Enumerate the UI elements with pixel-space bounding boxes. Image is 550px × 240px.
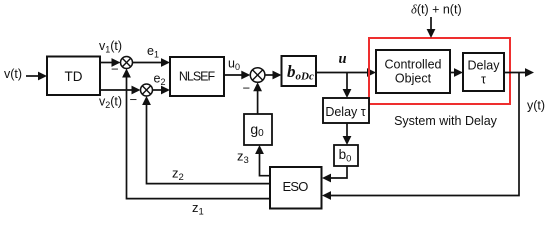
block ESO — [270, 167, 322, 209]
svg-text:e2: e2 — [154, 72, 166, 88]
wire u bODc to Controlled Object with branch — [316, 68, 376, 98]
block Controlled Object — [376, 50, 450, 93]
block g0 — [244, 114, 272, 145]
svg-text:−: − — [130, 92, 138, 107]
block Delay tau inside red box — [463, 53, 504, 91]
wire z1 ESO left to junction A — [122, 69, 270, 199]
block bODc — [282, 56, 317, 86]
wire TD top output v1 to junction A — [100, 58, 121, 67]
svg-text:u0: u0 — [228, 57, 240, 73]
svg-text:e1: e1 — [147, 44, 159, 60]
svg-text:TD: TD — [65, 69, 83, 84]
block NLSEF — [170, 57, 224, 96]
block Delay tau lower — [323, 98, 369, 123]
svg-text:Delay τ: Delay τ — [325, 105, 365, 119]
wire junction C to bODc — [265, 71, 282, 80]
svg-text:v(t): v(t) — [4, 67, 22, 81]
svg-text:z3: z3 — [237, 149, 249, 167]
svg-text:Delay: Delay — [468, 59, 501, 73]
wire disturbance arrow into red box — [427, 17, 436, 38]
wire b0 down and left into ESO — [322, 166, 347, 182]
wire g0 up to junction C — [253, 82, 262, 114]
wire v(t) input arrow — [26, 72, 47, 81]
summing junction A — [121, 57, 133, 69]
wire e2 junction B to NLSEF — [153, 86, 171, 95]
svg-text:z2: z2 — [172, 166, 184, 184]
summing junction B — [141, 84, 153, 96]
svg-text:v2(t): v2(t) — [99, 95, 122, 111]
svg-text:−: − — [111, 62, 119, 77]
wire output of Delay with arrow and branch down — [322, 68, 534, 200]
svg-text:u: u — [339, 51, 347, 67]
wire z3 ESO left to g0 bottom — [255, 145, 270, 176]
svg-text:ESO: ESO — [282, 179, 308, 194]
red box System with Delay — [369, 38, 510, 104]
svg-text:NLSEF: NLSEF — [179, 70, 216, 84]
wire z2 ESO left to junction B — [142, 96, 270, 184]
svg-text:y(t): y(t) — [527, 99, 545, 113]
wire e1 junction A to NLSEF — [133, 58, 171, 67]
svg-text:Object: Object — [395, 72, 432, 86]
svg-text:v1(t): v1(t) — [99, 39, 122, 55]
svg-text:z1: z1 — [192, 200, 204, 217]
wire u0 NLSEF to junction C — [224, 71, 250, 80]
wire lower Delay to b0 — [343, 123, 352, 145]
svg-text:δ(t) + n(t): δ(t) + n(t) — [411, 3, 462, 17]
wire Controlled Object to Delay — [450, 68, 463, 77]
wire TD bottom output v2 to junction B — [100, 86, 141, 95]
svg-text:−: − — [243, 81, 251, 96]
block b0 — [334, 145, 358, 166]
summing junction C — [250, 68, 265, 83]
svg-text:System with Delay: System with Delay — [394, 114, 498, 128]
svg-text:τ: τ — [481, 73, 486, 87]
svg-text:Controlled: Controlled — [385, 58, 442, 72]
block TD — [47, 57, 100, 96]
